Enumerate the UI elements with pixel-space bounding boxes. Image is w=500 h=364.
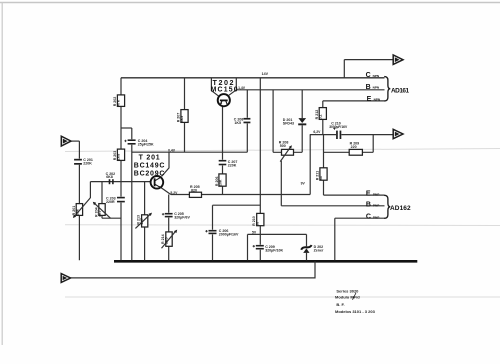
svg-text:0,1: 0,1 [318, 114, 322, 119]
svg-text:2K5: 2K5 [165, 237, 169, 244]
svg-text:E: E [367, 96, 372, 103]
svg-text:220K: 220K [83, 161, 92, 165]
svg-text:220: 220 [351, 145, 357, 149]
svg-text:820: 820 [191, 188, 197, 192]
svg-text:NPN: NPN [373, 74, 380, 78]
svg-text:5,2V: 5,2V [170, 191, 178, 195]
svg-text:B: B [366, 84, 371, 91]
svg-text:AD161: AD161 [391, 88, 410, 95]
svg-text:MC150: MC150 [211, 87, 239, 94]
svg-text:E: E [366, 190, 371, 197]
svg-text:PNP: PNP [373, 192, 379, 196]
svg-text:PNP: PNP [373, 215, 379, 219]
svg-text:6,2V: 6,2V [313, 130, 321, 134]
svg-text:6K8: 6K8 [106, 175, 113, 179]
svg-text:320µF/10K: 320µF/10K [265, 248, 283, 252]
svg-text:C: C [366, 72, 371, 79]
svg-text:9V: 9V [301, 182, 306, 186]
svg-text:56: 56 [255, 222, 259, 226]
svg-text:B. F.: B. F. [336, 302, 344, 307]
svg-text:4K7: 4K7 [98, 210, 102, 217]
svg-text:1K8: 1K8 [117, 154, 121, 161]
svg-text:3000µF/16V: 3000µF/16V [329, 125, 348, 129]
svg-text:1,4V: 1,4V [238, 86, 246, 90]
svg-text:3K9: 3K9 [180, 116, 184, 123]
svg-text:0,4V: 0,4V [168, 148, 176, 152]
svg-text:B: B [366, 201, 371, 208]
svg-text:47K: 47K [117, 99, 121, 106]
svg-text:500: 500 [280, 144, 286, 148]
svg-text:4K7: 4K7 [140, 218, 144, 225]
svg-text:BC149C: BC149C [134, 163, 165, 170]
svg-text:Modulo MF/d: Modulo MF/d [335, 294, 360, 299]
svg-text:T 201: T 201 [139, 155, 161, 162]
svg-text:1K5: 1K5 [234, 121, 241, 125]
svg-text:SFD43: SFD43 [283, 121, 294, 125]
svg-text:Series 3020: Series 3020 [336, 288, 359, 293]
svg-text:5V: 5V [252, 230, 257, 234]
svg-text:AD162: AD162 [390, 205, 411, 212]
svg-text:Modelos 3101 - 3 203: Modelos 3101 - 3 203 [335, 309, 376, 314]
svg-text:10K: 10K [219, 179, 223, 186]
svg-text:PNP: PNP [373, 203, 379, 207]
svg-text:25K: 25K [75, 208, 79, 215]
svg-text:220R: 220R [106, 200, 115, 204]
svg-text:NPN: NPN [373, 86, 380, 90]
svg-text:220K: 220K [228, 163, 237, 167]
svg-text:NPN: NPN [374, 98, 381, 102]
svg-text:320µF/6V: 320µF/6V [174, 215, 190, 219]
svg-text:C: C [366, 213, 371, 220]
svg-text:25µF/25K: 25µF/25K [138, 142, 154, 146]
svg-text:14V: 14V [262, 72, 269, 76]
svg-text:BC209C: BC209C [134, 170, 165, 177]
svg-text:2000µF/16V: 2000µF/16V [219, 232, 239, 236]
svg-text:Zener: Zener [314, 248, 324, 252]
svg-text:33: 33 [319, 176, 323, 180]
